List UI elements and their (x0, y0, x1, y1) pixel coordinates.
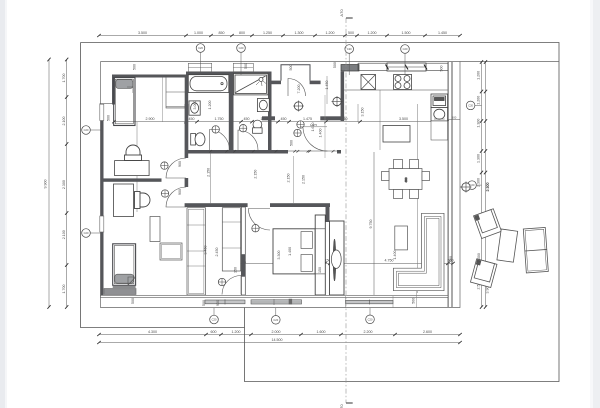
svg-text:1.475: 1.475 (303, 117, 312, 121)
svg-text:2.150: 2.150 (253, 170, 257, 179)
svg-text:9.750: 9.750 (369, 220, 373, 229)
washbasin1 (189, 101, 200, 115)
svg-text:3.450: 3.450 (204, 246, 208, 255)
interior vertical x417.6 (417, 104, 419, 293)
svg-text:1.450: 1.450 (438, 31, 447, 35)
unit corner stub (330, 286, 334, 291)
svg-text:500: 500 (244, 63, 248, 69)
svg-text:2.450: 2.450 (215, 248, 219, 257)
svg-text:2.100: 2.100 (62, 117, 66, 126)
entry top wall (272, 81, 282, 85)
svg-text:1.400: 1.400 (319, 129, 323, 138)
svg-text:2.200: 2.200 (364, 330, 373, 334)
BR1 west wall (112, 75, 115, 105)
toilet2 (253, 120, 262, 129)
svg-text:1.700: 1.700 (62, 285, 66, 294)
bathtub (188, 75, 229, 93)
svg-text:800: 800 (239, 31, 245, 35)
svg-text:A70: A70 (339, 9, 344, 17)
svg-text:1.200: 1.200 (326, 31, 335, 35)
svg-text:500: 500 (452, 115, 457, 119)
svg-text:1.300: 1.300 (477, 154, 481, 163)
svg-text:1.250: 1.250 (263, 31, 272, 35)
svg-text:500: 500 (348, 31, 354, 35)
interior vertical thin x137 (136, 122, 138, 212)
svg-text:500: 500 (133, 64, 137, 70)
left gray strip (0, 0, 5, 408)
left outer dim col (48, 60, 50, 308)
bath pier window 2 (233, 63, 253, 71)
svg-text:1.400: 1.400 (288, 247, 292, 256)
left inner dim col (66, 60, 68, 308)
svg-text:2.150: 2.150 (302, 175, 306, 184)
svg-text:1.400: 1.400 (393, 251, 397, 260)
svg-text:1.750: 1.750 (215, 117, 224, 121)
svg-text:1.000: 1.000 (194, 31, 203, 35)
svg-text:900: 900 (216, 300, 220, 306)
spine wall (185, 104, 189, 158)
shower (234, 74, 269, 95)
outdoor chair A (474, 209, 502, 239)
svg-text:500: 500 (131, 298, 135, 304)
svg-text:500: 500 (202, 300, 206, 306)
svg-text:900: 900 (178, 161, 182, 167)
wardrobe bedroom1 (166, 76, 185, 109)
svg-text:600: 600 (211, 330, 217, 334)
office partition (101, 178, 162, 181)
svg-text:2.100: 2.100 (62, 230, 66, 239)
svg-text:1.200: 1.200 (368, 31, 377, 35)
bottom dim rows (99, 334, 460, 336)
svg-text:3.300: 3.300 (277, 251, 281, 260)
svg-text:1.200: 1.200 (477, 71, 481, 80)
site boundary (81, 43, 560, 382)
svg-text:1.300: 1.300 (295, 31, 304, 35)
svg-text:2.300: 2.300 (477, 178, 481, 187)
svg-text:1.300: 1.300 (477, 119, 481, 128)
entry inner partition (262, 116, 275, 120)
svg-text:850: 850 (219, 31, 225, 35)
plinth outline (101, 62, 560, 308)
west window 1 (100, 104, 104, 120)
coffee table (395, 226, 408, 250)
kitchen top band 1 (low wall) (341, 65, 359, 72)
svg-text:7.200: 7.200 (297, 85, 301, 94)
windows (100, 63, 417, 308)
svg-text:1.500: 1.500 (477, 253, 481, 262)
svg-text:450: 450 (281, 117, 287, 121)
svg-text:3.500: 3.500 (399, 117, 408, 121)
south wall thin double line (101, 295, 449, 297)
svg-text:1.700: 1.700 (62, 74, 66, 83)
closet1 (187, 208, 205, 295)
svg-text:3.500: 3.500 (138, 31, 147, 35)
kitchen sink unit (361, 75, 376, 90)
svg-text:1.610: 1.610 (311, 123, 315, 132)
wardrobe|master wall (241, 207, 245, 295)
oven (431, 94, 448, 108)
master south window (251, 300, 302, 304)
master east wall stub (326, 207, 330, 222)
sofa (393, 213, 444, 290)
kitchen west wall (341, 72, 345, 122)
closet2 (222, 208, 240, 271)
hallway south wall (185, 203, 248, 207)
door arc bath1 (166, 79, 328, 295)
kitchen top wall mid (thin lines) (358, 63, 448, 70)
wall bath2|entry (268, 72, 272, 151)
living south window (346, 300, 394, 304)
svg-text:9.900: 9.900 (44, 180, 48, 189)
svg-text:480: 480 (404, 177, 408, 182)
svg-text:2.300: 2.300 (486, 183, 490, 192)
svg-text:1.500: 1.500 (402, 31, 411, 35)
svg-text:500: 500 (289, 65, 293, 71)
top dim row (99, 35, 460, 37)
svg-text:2.600: 2.600 (423, 330, 432, 334)
toilet1 (191, 134, 196, 146)
west wall (101, 104, 104, 295)
wall BR1|bath1 (185, 75, 188, 151)
entry recess top (281, 65, 310, 81)
interior vertical 9.750 (373, 152, 375, 295)
wall bath1|bath2 (229, 72, 234, 151)
svg-text:2.900: 2.900 (146, 117, 155, 121)
svg-text:1.450: 1.450 (325, 81, 329, 90)
svg-text:500: 500 (333, 62, 337, 68)
svg-text:450: 450 (189, 117, 195, 121)
svg-text:150: 150 (318, 267, 322, 273)
svg-text:150: 150 (233, 267, 237, 273)
right dim cols (481, 62, 483, 307)
outdoor chair B (470, 259, 496, 288)
kitchen hob (394, 75, 412, 90)
svg-text:2.300: 2.300 (62, 180, 66, 189)
bath pier window 1 (188, 63, 211, 71)
svg-text:1.200: 1.200 (208, 101, 212, 110)
svg-text:450: 450 (244, 117, 250, 121)
west window 2 (100, 216, 104, 232)
svg-text:14.500: 14.500 (272, 338, 283, 342)
right gray strip (593, 0, 600, 408)
washbasin2 (257, 99, 269, 112)
BR1/top wall (112, 75, 186, 78)
outdoor sofa (523, 227, 548, 272)
svg-text:500: 500 (412, 298, 416, 304)
svg-text:2.150: 2.150 (207, 168, 211, 177)
svg-text:2.000: 2.000 (272, 330, 281, 334)
bath top wall (186, 72, 271, 76)
desk office2 (114, 184, 134, 217)
svg-text:1.200: 1.200 (477, 96, 481, 105)
svg-text:3.150: 3.150 (361, 108, 365, 117)
svg-text:1.200: 1.200 (232, 330, 241, 334)
kitchen top window band 2 (387, 63, 426, 71)
kitchen island (383, 126, 410, 143)
svg-text:900: 900 (178, 189, 182, 195)
interior dim row y263.4 (228, 262, 453, 264)
dining table (389, 169, 422, 190)
svg-text:4.300: 4.300 (148, 330, 157, 334)
bed master (273, 229, 315, 274)
svg-text:500: 500 (107, 115, 111, 121)
washing machine (431, 108, 448, 122)
svg-text:500: 500 (449, 256, 453, 262)
east wall double (448, 62, 449, 307)
svg-text:3.000: 3.000 (193, 101, 197, 110)
interior dim row y121.7 (114, 121, 447, 123)
BR3 south window (104, 289, 136, 295)
hallway north wall (185, 150, 288, 154)
svg-text:2.150: 2.150 (286, 174, 290, 183)
svg-text:1.600: 1.600 (317, 330, 326, 334)
svg-text:500: 500 (290, 140, 294, 146)
svg-text:500: 500 (440, 66, 444, 72)
desk office1 (115, 161, 150, 176)
